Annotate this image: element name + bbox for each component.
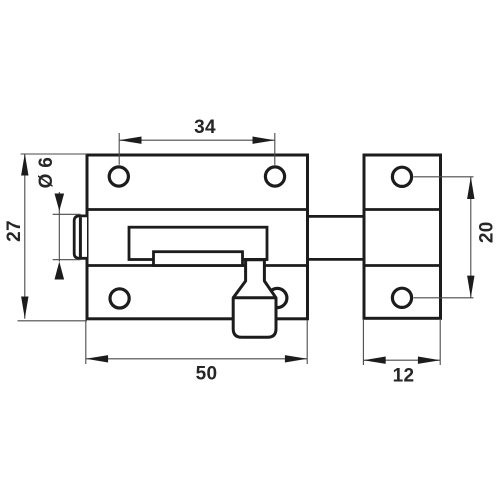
screw hole top-left (109, 167, 128, 186)
dim diameter 6: arrow down (55, 194, 65, 212)
dim diameter 6: arrow up (55, 262, 65, 280)
divider line lower (86, 264, 309, 267)
slider plate (154, 252, 243, 266)
dim 34: arrow left (119, 137, 141, 144)
dim 34: extension lines (118, 133, 120, 165)
dim 34: arrow right (253, 137, 275, 144)
dim 50: arrow left (86, 355, 108, 362)
svg-text:20: 20 (476, 221, 497, 243)
dim 34: dimension line (119, 139, 275, 141)
svg-text:27: 27 (4, 220, 25, 242)
keeper plate (364, 155, 441, 318)
dim 12: dimension line (363, 359, 440, 361)
dim 50: extension lines (85, 320, 87, 364)
dim 27: arrow down (21, 297, 28, 319)
main plate body (87, 155, 308, 319)
dim 50: arrow right (285, 355, 307, 362)
dim diameter 6: dimension line (58, 192, 60, 262)
dim 50: dimension line (86, 358, 307, 360)
screw hole top-right (265, 167, 284, 186)
screw hole bottom-right (partly behind knob) (268, 288, 287, 307)
keeper divider upper (363, 208, 442, 211)
dim 20: extension lines (414, 176, 474, 178)
screw hole bottom-left (110, 289, 129, 308)
divider line upper (86, 208, 309, 211)
dim 12: arrow right (418, 357, 440, 364)
housing recess rect (129, 227, 267, 259)
dim diameter 6: extension lines (53, 213, 81, 215)
dim 20: arrow up (467, 177, 474, 199)
knob (233, 259, 276, 337)
dim 20: dimension line (470, 177, 472, 298)
dim 27: extension lines (21, 153, 88, 155)
keeper hole bottom (392, 288, 411, 307)
dim 27: dimension line (24, 154, 26, 319)
dim 27: arrow up (21, 154, 28, 176)
svg-text:Ø 6: Ø 6 (36, 157, 57, 189)
barrel end at left (74, 216, 87, 258)
keeper divider lower (363, 264, 442, 267)
dim 12: extension lines (362, 320, 364, 365)
dim 20: arrow down (467, 276, 474, 298)
keeper hole top (392, 167, 411, 186)
svg-text:34: 34 (194, 117, 216, 138)
bolt rod between plates (308, 215, 365, 218)
svg-text:12: 12 (393, 366, 415, 387)
svg-text:50: 50 (196, 364, 218, 385)
dim 12: arrow left (363, 357, 385, 364)
